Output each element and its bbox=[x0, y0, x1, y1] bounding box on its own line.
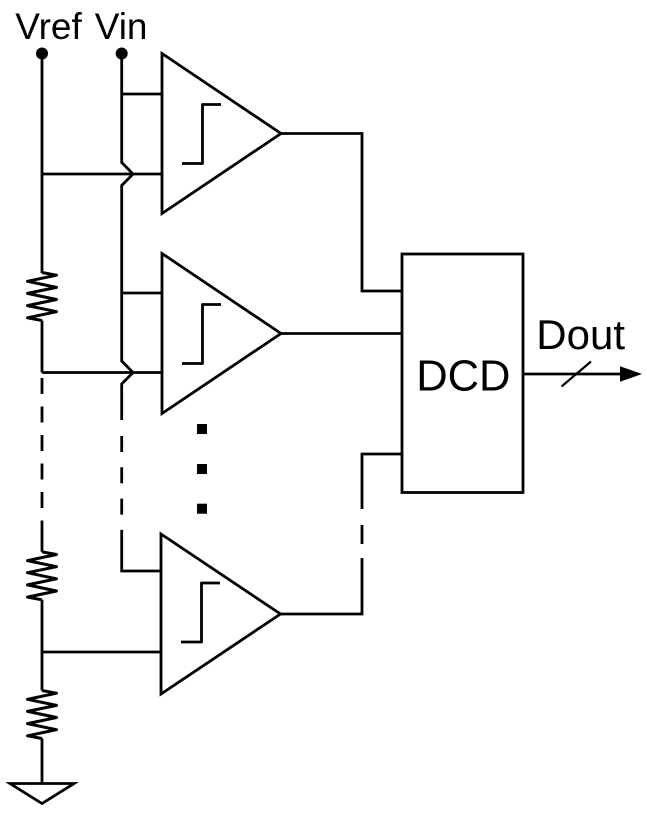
svg-text:Vin: Vin bbox=[95, 6, 148, 47]
svg-text:Dout: Dout bbox=[536, 311, 625, 358]
svg-text:Vref: Vref bbox=[15, 6, 82, 47]
svg-text:DCD: DCD bbox=[416, 353, 510, 401]
